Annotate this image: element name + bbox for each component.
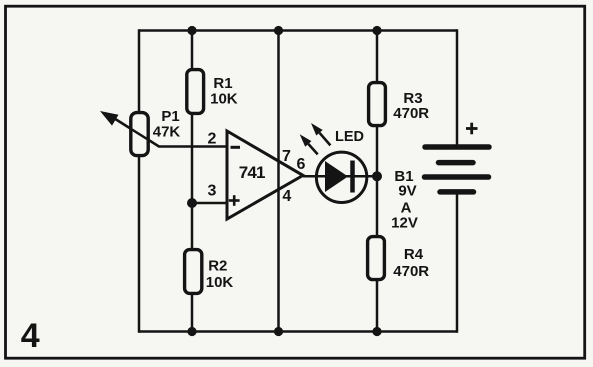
LED arrow 1 [300, 134, 318, 154]
resistor R3 [369, 83, 386, 126]
battery plate 4 short [440, 189, 474, 195]
node bottom R4 [372, 327, 381, 336]
label R2 value [206, 257, 234, 290]
wire left rail lower [138, 155, 141, 333]
wire bottom rail [139, 330, 457, 333]
svg-text:741: 741 [239, 163, 265, 182]
battery plate 2 short [439, 160, 474, 166]
svg-text:12V: 12V [391, 214, 418, 231]
op-amp plus sign [229, 195, 240, 206]
potentiometer P1 [100, 111, 159, 156]
svg-text:P1: P1 [161, 108, 179, 125]
svg-text:10K: 10K [210, 90, 238, 107]
op-amp U1 741 [227, 131, 303, 219]
label LED [335, 129, 364, 145]
wire left rail upper [138, 29, 141, 113]
svg-text:10K: 10K [206, 274, 234, 291]
node pin3 junction [187, 198, 197, 208]
node LED output junction [372, 171, 382, 181]
wire op-amp output [303, 175, 377, 178]
node top supply [274, 26, 283, 35]
svg-text:47K: 47K [153, 124, 181, 141]
resistor R4 [368, 237, 385, 280]
wire pin2 input [115, 118, 228, 146]
svg-text:R1: R1 [213, 75, 232, 92]
op-amp minus sign [231, 146, 241, 149]
node bottom R2 [187, 327, 196, 336]
resistor R2 [185, 250, 202, 294]
battery plus sign [466, 123, 478, 135]
pin 6 [297, 156, 306, 173]
battery plate 3 long [425, 174, 489, 180]
node top R1 [187, 26, 196, 35]
svg-text:470R: 470R [393, 263, 429, 280]
node bottom supply [274, 327, 283, 336]
svg-text:6: 6 [297, 156, 306, 173]
label P1 value [153, 108, 181, 141]
pin 4 [282, 188, 291, 205]
wire top rail [139, 29, 457, 32]
label R1 value [210, 75, 238, 108]
wire pin3 input [192, 202, 227, 205]
svg-text:7: 7 [282, 148, 291, 165]
pin 2 [208, 131, 217, 148]
svg-text:R4: R4 [404, 246, 424, 263]
LED arrow 2 [311, 123, 330, 145]
wire R3-R4 column [376, 31, 379, 332]
label R4 value [393, 246, 429, 280]
svg-text:4: 4 [21, 317, 40, 355]
pin 3 [208, 183, 217, 200]
label R3 value [393, 90, 429, 122]
LED D1 [316, 152, 366, 202]
svg-text:R2: R2 [208, 257, 227, 274]
node top R3 [372, 26, 381, 35]
wire battery column [456, 29, 459, 333]
svg-text:3: 3 [208, 183, 217, 200]
label B1 value [391, 168, 418, 231]
wire R1-R2 column [191, 31, 194, 332]
wire op-amp supply column [277, 31, 280, 332]
svg-text:2: 2 [208, 131, 217, 148]
svg-text:LED: LED [335, 129, 364, 145]
svg-text:470R: 470R [393, 105, 429, 122]
svg-text:9V: 9V [398, 182, 416, 199]
svg-text:4: 4 [282, 188, 291, 205]
resistor R1 [187, 70, 204, 114]
battery B1 plate 1 long [425, 144, 489, 150]
pin 7 [282, 148, 291, 165]
label 741 [239, 163, 265, 182]
figure number 4 [21, 317, 40, 355]
